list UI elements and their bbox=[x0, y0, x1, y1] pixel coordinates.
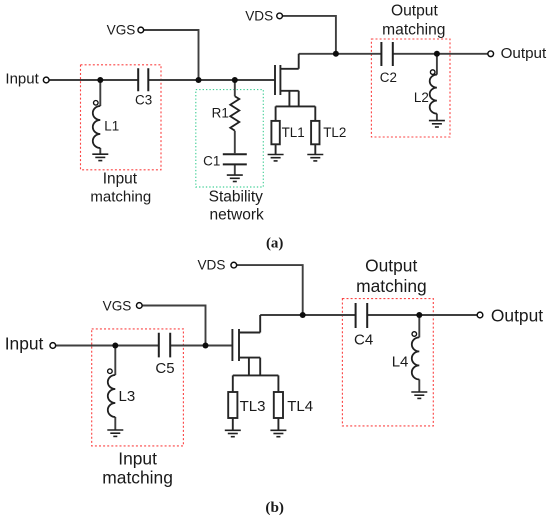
svg-text:Output: Output bbox=[391, 3, 438, 20]
svg-text:Stability: Stability bbox=[209, 189, 264, 206]
svg-text:R1: R1 bbox=[212, 106, 229, 121]
svg-text:(a): (a) bbox=[266, 235, 284, 251]
svg-text:L3: L3 bbox=[119, 388, 136, 405]
svg-text:matching: matching bbox=[90, 189, 151, 206]
svg-text:TL4: TL4 bbox=[287, 398, 313, 415]
svg-text:Input: Input bbox=[5, 71, 39, 88]
svg-text:Input: Input bbox=[118, 448, 157, 468]
svg-text:VDS: VDS bbox=[197, 258, 225, 273]
svg-text:C5: C5 bbox=[155, 360, 174, 377]
svg-text:L1: L1 bbox=[104, 119, 119, 134]
svg-text:VGS: VGS bbox=[107, 22, 136, 37]
svg-text:L2: L2 bbox=[414, 90, 429, 105]
svg-text:TL1: TL1 bbox=[282, 125, 305, 140]
svg-text:Input: Input bbox=[5, 333, 44, 353]
svg-text:Output: Output bbox=[365, 256, 417, 276]
svg-text:(b): (b) bbox=[265, 499, 284, 516]
svg-text:Input: Input bbox=[103, 170, 138, 187]
svg-text:C1: C1 bbox=[203, 153, 220, 168]
svg-text:TL2: TL2 bbox=[323, 125, 346, 140]
svg-text:Output: Output bbox=[501, 45, 547, 62]
svg-text:matching: matching bbox=[102, 467, 173, 487]
svg-text:C3: C3 bbox=[135, 92, 152, 107]
svg-text:Output: Output bbox=[491, 306, 543, 326]
svg-text:network: network bbox=[209, 207, 264, 224]
svg-text:C2: C2 bbox=[380, 70, 397, 85]
svg-text:TL3: TL3 bbox=[240, 398, 266, 415]
svg-text:matching: matching bbox=[382, 22, 445, 39]
svg-text:C4: C4 bbox=[354, 331, 373, 348]
svg-text:L4: L4 bbox=[392, 354, 409, 371]
svg-text:matching: matching bbox=[356, 276, 427, 296]
svg-text:VGS: VGS bbox=[103, 298, 132, 313]
svg-text:VDS: VDS bbox=[245, 8, 273, 23]
